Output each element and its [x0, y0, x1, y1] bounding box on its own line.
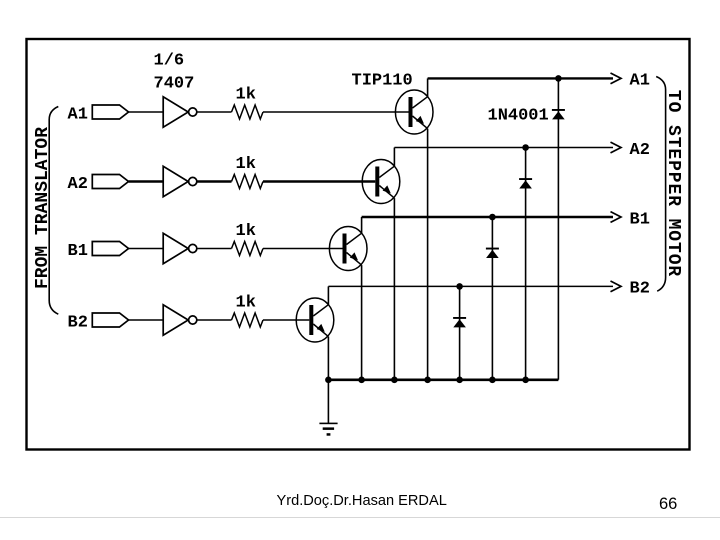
buffer output bubble [189, 108, 197, 116]
transistor Q2 TIP110 circle [362, 160, 400, 204]
output arrowhead B2 [611, 281, 622, 292]
transistor Q4 collector stroke [313, 305, 328, 316]
input terminal A2 [92, 175, 128, 189]
input terminal A1 [92, 105, 128, 119]
svg-text:1k: 1k [236, 86, 256, 105]
diode D2 1N4001 triangle [519, 180, 532, 188]
footer page number 66 [659, 495, 677, 514]
svg-text:1k: 1k [236, 155, 256, 174]
transistor Q1 base bar [409, 97, 413, 127]
emitter wire down to ground rail [393, 198, 395, 380]
svg-text:FROM TRANSLATOR: FROM TRANSLATOR [33, 127, 53, 289]
output arrowhead A1 [611, 73, 622, 84]
svg-text:1N4001: 1N4001 [488, 106, 549, 125]
output rail B1 [362, 216, 613, 218]
diode column wire D1 [557, 78, 559, 379]
frame border [27, 39, 690, 450]
ground rail junction dot x=525.6 [522, 377, 529, 384]
transistor Q1 emitter stroke [413, 116, 428, 129]
wire bubble to resistor [197, 248, 232, 250]
transistor Q4 emitter arrow [317, 324, 325, 332]
svg-text:7407: 7407 [154, 75, 195, 94]
wire bubble to resistor [197, 180, 232, 182]
diode D3 1N4001 triangle [486, 250, 499, 258]
resistor R1 1k [232, 105, 264, 119]
transistor Q1 collector stroke [413, 97, 428, 108]
transistor Q1 TIP110 circle [395, 90, 433, 134]
collector wire up to rail [327, 286, 329, 304]
diode D1 1N4001 cathode bar [552, 109, 565, 111]
transistor Q3 TIP110 circle [329, 227, 367, 271]
svg-text:A1: A1 [68, 105, 88, 124]
wire terminal to buffer [129, 111, 164, 113]
diode D3 1N4001 cathode bar [486, 248, 499, 250]
diode D2 1N4001 cathode bar [519, 178, 532, 180]
transistor Q2 collector stroke [379, 166, 394, 177]
transistor Q2 base bar [375, 167, 379, 197]
buffer gate U4 (1/6 7407) [163, 305, 188, 335]
emitter wire down to ground rail [327, 337, 329, 380]
transistor Q2 emitter stroke [379, 186, 394, 199]
ground rail junction dot x=459.6 [456, 377, 463, 384]
footer author [277, 493, 447, 509]
ground symbol bar 1 [319, 423, 337, 425]
transistor Q4 TIP110 circle [296, 298, 334, 342]
buffer gate U2 (1/6 7407) [163, 166, 188, 196]
diode D4 1N4001 triangle [453, 319, 466, 327]
transistor Q3 emitter stroke [347, 253, 362, 266]
emitter wire down to ground rail [361, 265, 363, 380]
output rail B2 [328, 285, 613, 287]
wire terminal to buffer [129, 248, 164, 250]
wire resistor to base Q1 [263, 111, 409, 113]
svg-text:B2: B2 [68, 313, 88, 332]
collector wire up to rail [393, 148, 395, 167]
wire terminal to buffer [129, 319, 164, 321]
ground stem wire [327, 380, 329, 424]
wire resistor to base Q4 [263, 319, 309, 321]
ground rail junction dot x=427.6 [424, 377, 431, 384]
output arrowhead A2 [611, 142, 622, 153]
transistor Q2 emitter arrow [383, 185, 391, 193]
ground rail junction dot x=492.4 [489, 377, 496, 384]
diode column wire D4 [459, 286, 461, 379]
buffer gate U3 (1/6 7407) [163, 233, 188, 263]
svg-text:1k: 1k [236, 222, 256, 241]
node dot rail/diode junction [555, 75, 562, 82]
ground rail junction dot x=328.4 [325, 377, 332, 384]
wire bubble to resistor [197, 111, 232, 113]
node dot rail/diode junction [522, 144, 529, 151]
svg-text:1k: 1k [236, 294, 256, 313]
right brace (TO side) [656, 77, 665, 292]
transistor Q3 emitter arrow [350, 252, 358, 260]
buffer output bubble [189, 316, 197, 324]
transistor Q3 collector stroke [347, 233, 362, 244]
diode D1 1N4001 triangle [552, 111, 565, 119]
node dot rail/diode junction [456, 283, 463, 290]
ground rail [328, 378, 558, 381]
buffer gate U1 (1/6 7407) [163, 97, 188, 127]
transistor Q3 base bar [343, 234, 347, 264]
buffer output bubble [189, 177, 197, 185]
svg-text:TO STEPPER MOTOR: TO STEPPER MOTOR [663, 90, 683, 277]
collector wire up to rail [427, 78, 429, 96]
wire resistor to base Q2 [263, 180, 375, 182]
emitter wire down to ground rail [427, 129, 429, 380]
collector wire up to rail [361, 217, 363, 233]
left brace (FROM side) [49, 107, 58, 315]
ground symbol bar 3 [327, 433, 331, 436]
ground rail junction dot x=394.4 [391, 377, 398, 384]
ground rail junction dot x=361.6 [358, 377, 365, 384]
svg-text:A1: A1 [630, 72, 650, 91]
svg-text:A2: A2 [68, 175, 88, 194]
diode column wire D2 [525, 148, 527, 380]
buffer output bubble [189, 244, 197, 252]
transistor Q1 emitter arrow [416, 116, 424, 124]
svg-text:B1: B1 [630, 210, 650, 229]
output rail A2 [394, 147, 613, 149]
input terminal B1 [92, 242, 128, 256]
transistor Q4 base bar [309, 305, 313, 335]
svg-text:A2: A2 [630, 141, 650, 160]
diode D4 1N4001 cathode bar [453, 317, 466, 319]
output rail A1 [428, 77, 613, 79]
node dot rail/diode junction [489, 214, 496, 221]
transistor Q4 emitter stroke [313, 324, 328, 337]
ground symbol bar 2 [323, 427, 334, 430]
resistor R3 1k [232, 242, 264, 256]
diode column wire D3 [491, 217, 493, 380]
wire terminal to buffer [129, 180, 164, 182]
output arrowhead B1 [611, 212, 622, 223]
resistor R2 1k [232, 175, 264, 189]
svg-text:B1: B1 [68, 242, 88, 261]
svg-text:1/6: 1/6 [154, 52, 185, 71]
wire resistor to base Q3 [263, 248, 343, 250]
wire bubble to resistor [197, 319, 232, 321]
input terminal B2 [92, 313, 128, 327]
svg-text:B2: B2 [630, 280, 650, 299]
resistor R4 1k [232, 313, 264, 327]
svg-text:TIP110: TIP110 [352, 71, 413, 90]
bottom separator line [0, 517, 720, 518]
